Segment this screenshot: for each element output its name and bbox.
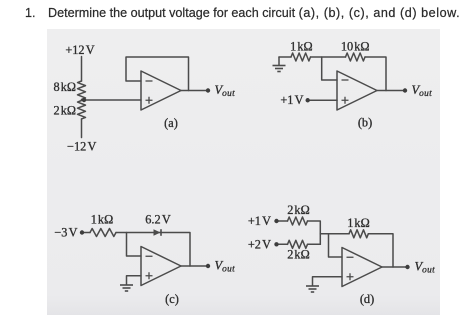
svg-text:(c): (c) (165, 292, 179, 306)
svg-text:−12V: −12V (67, 140, 96, 154)
svg-text:2kΩ: 2kΩ (287, 248, 309, 262)
svg-text:+1V: +1V (248, 214, 271, 228)
svg-text:+12V: +12V (65, 43, 94, 57)
svg-text:8kΩ: 8kΩ (54, 80, 76, 94)
svg-text:(a): (a) (164, 116, 178, 130)
svg-text:1kΩ: 1kΩ (91, 213, 113, 227)
svg-text:10kΩ: 10kΩ (341, 40, 370, 54)
svg-text:2kΩ: 2kΩ (287, 203, 309, 217)
svg-text:1kΩ: 1kΩ (290, 40, 312, 54)
svg-text:+1V: +1V (280, 93, 303, 107)
svg-text:−3V: −3V (54, 226, 77, 240)
svg-text:2kΩ: 2kΩ (54, 103, 76, 117)
svg-text:+2V: +2V (248, 237, 271, 251)
svg-text:6.2V: 6.2V (145, 213, 171, 227)
svg-text:1kΩ: 1kΩ (347, 216, 369, 230)
svg-text:(d): (d) (360, 292, 374, 306)
svg-text:(b): (b) (358, 116, 372, 130)
